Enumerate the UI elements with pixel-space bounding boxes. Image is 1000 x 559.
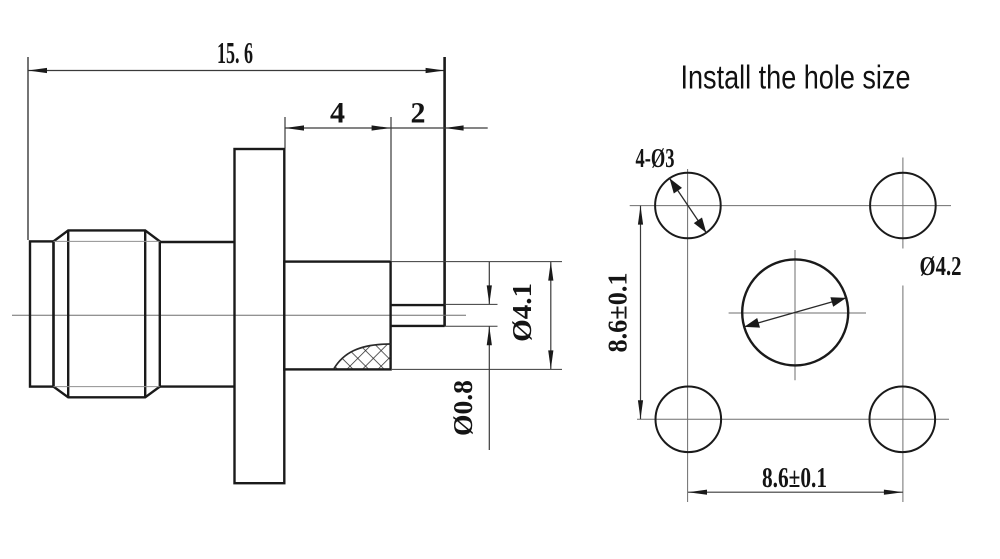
centerline vertical center hole	[794, 250, 796, 380]
centerline axis	[12, 314, 466, 316]
center hole	[742, 259, 848, 365]
center hole diameter arrow	[744, 297, 846, 327]
body diameter extension lines	[391, 262, 562, 370]
mid barrel between nut and flange	[160, 242, 235, 387]
dimension 8.6±0.1 horizontal	[688, 462, 903, 495]
svg-text:Ø4.1: Ø4.1	[507, 283, 537, 342]
svg-text:2: 2	[411, 96, 426, 129]
dimension 4	[285, 96, 391, 260]
centerline vertical left holes	[687, 169, 689, 502]
svg-text:4: 4	[330, 96, 345, 129]
center pin	[391, 305, 445, 326]
rear body	[284, 262, 390, 370]
centerline horizontal center hole	[729, 312, 866, 314]
svg-text:8.6±0.1: 8.6±0.1	[762, 462, 827, 494]
mounting flange	[235, 149, 285, 483]
hole top-left	[655, 173, 721, 239]
dimension 15.6	[28, 35, 445, 240]
dimension 2	[391, 96, 488, 130]
svg-text:Install the hole size: Install the hole size	[681, 59, 911, 96]
extension line right (15.6 / 2, down to pin)	[443, 57, 446, 326]
coupling barrel (left cylinder)	[30, 241, 54, 386]
centerline horizontal bottom holes	[637, 418, 949, 420]
hole bottom-right	[870, 387, 936, 453]
centerline vertical bottom-right hole	[902, 286, 904, 503]
dimension 8.6±0.1 vertical	[603, 206, 644, 420]
dimension Ø0.8	[448, 262, 492, 450]
top-left hole diameter arrow	[670, 178, 707, 232]
centerline vertical top-right hole	[902, 158, 904, 249]
hole top-right	[870, 173, 936, 239]
dimension Ø4.1	[507, 262, 553, 370]
svg-text:Ø4.2: Ø4.2	[920, 251, 962, 281]
pin extension lines	[445, 304, 498, 326]
hex coupling nut	[54, 230, 160, 397]
svg-text:8.6±0.1: 8.6±0.1	[603, 273, 633, 353]
centerline horizontal top holes	[630, 205, 951, 207]
hole bottom-left	[656, 387, 722, 453]
svg-text:Ø0.8: Ø0.8	[448, 380, 478, 436]
solder hatch region	[334, 344, 391, 369]
svg-text:4-Ø3: 4-Ø3	[636, 143, 675, 173]
svg-text:15. 6: 15. 6	[217, 35, 253, 70]
